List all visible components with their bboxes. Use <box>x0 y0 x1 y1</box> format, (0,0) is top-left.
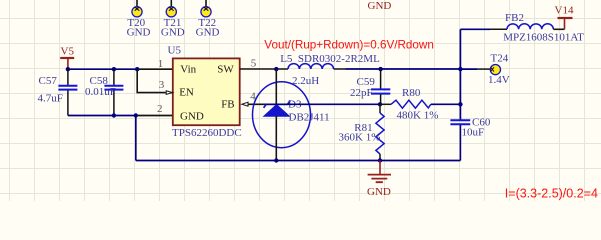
svg-text:Vin: Vin <box>180 64 196 76</box>
wire FB2 branch horizontal <box>460 28 490 30</box>
junction C59 top <box>378 67 382 71</box>
inductor L5 coil <box>288 64 334 69</box>
svg-text:GND: GND <box>180 111 204 123</box>
junction C58 bottom <box>112 113 116 117</box>
ferrite bead FB2 coil <box>507 24 553 29</box>
power symbol V5 stub <box>67 58 69 69</box>
test point T21 pin cross <box>169 7 174 11</box>
diode D3 anode lead <box>275 116 277 160</box>
capacitor C59 bottom lead <box>380 94 382 104</box>
power symbol V5 bar <box>60 57 74 59</box>
resistor R81 top lead <box>379 104 381 113</box>
diode D3 circle <box>253 82 311 148</box>
wire right vertical rail <box>459 29 461 120</box>
svg-text:R80: R80 <box>402 87 421 99</box>
diode D3 cathode bar (schottky) <box>264 100 291 108</box>
capacitor C58 plates <box>104 86 123 90</box>
test point T22 pin cross <box>204 7 209 11</box>
diode D3 triangle <box>264 105 290 117</box>
wire FB net <box>266 103 380 105</box>
svg-text:GND: GND <box>161 27 185 39</box>
wire EN branch vertical <box>137 69 166 92</box>
test point T21 <box>166 7 176 17</box>
pin 4 lead <box>248 103 267 105</box>
svg-text:T24: T24 <box>491 53 509 65</box>
junction C58 top <box>112 67 116 71</box>
resistor R80 zigzag <box>391 100 431 108</box>
svg-text:C58: C58 <box>90 75 109 87</box>
capacitor C57 bottom lead <box>67 91 69 116</box>
ferrite bead FB2 left lead <box>490 28 507 30</box>
svg-text:GND: GND <box>196 27 220 39</box>
svg-text:0.01uF: 0.01uF <box>85 86 116 98</box>
junction R81/GND symbol <box>378 158 382 162</box>
svg-text:GND: GND <box>368 0 392 12</box>
svg-text:360K 1%: 360K 1% <box>339 132 381 144</box>
junction SW/diode <box>274 67 278 71</box>
ferrite bead FB2 right lead <box>553 28 564 30</box>
capacitor C59 top lead <box>380 69 382 89</box>
svg-text:2: 2 <box>157 103 163 115</box>
svg-text:GND: GND <box>127 27 151 39</box>
junction Vout rail/right branch <box>458 67 462 71</box>
svg-text:FB2: FB2 <box>505 12 524 24</box>
wire Vin rail top-left <box>68 68 137 70</box>
capacitor C58 top lead <box>113 69 115 85</box>
wire L5 to right rail <box>346 68 461 70</box>
test point T22 <box>201 7 211 17</box>
svg-text:TPS62260DDC: TPS62260DDC <box>172 127 242 139</box>
test point T24 pin lead <box>477 68 490 70</box>
svg-text:10uF: 10uF <box>462 126 485 138</box>
ground symbol stub <box>379 161 381 175</box>
inductor L5 right lead <box>334 68 346 70</box>
svg-text:GND: GND <box>367 186 391 198</box>
svg-text:2.2uH: 2.2uH <box>292 75 319 87</box>
svg-text:22pF: 22pF <box>350 87 373 99</box>
capacitor C60 bottom lead <box>459 125 461 161</box>
resistor R81 zigzag <box>376 113 384 154</box>
test point T20 <box>132 7 142 17</box>
junction FB node <box>378 102 382 106</box>
svg-text:SW: SW <box>217 64 234 76</box>
test point T24 pin cross <box>491 67 494 71</box>
capacitor C59 plates <box>371 89 390 93</box>
svg-text:4.7uF: 4.7uF <box>38 93 63 105</box>
pin 1 lead <box>137 68 173 70</box>
junction EN branch <box>135 67 139 71</box>
capacitor C60 plates <box>450 120 470 124</box>
svg-text:V5: V5 <box>61 46 75 58</box>
junction R80/right branch <box>458 102 462 106</box>
wire GND rail bottom <box>136 160 461 162</box>
wire GND rail bottom-left <box>68 115 136 117</box>
test point T24 <box>490 65 500 75</box>
capacitor C58 bottom lead <box>113 91 115 116</box>
svg-text:L5 SDR0302-2R2ML: L5 SDR0302-2R2ML <box>280 53 380 65</box>
power symbol V14 bar <box>558 17 573 19</box>
resistor R80 right lead <box>431 103 461 105</box>
wire SW to L5 <box>240 68 288 70</box>
capacitor C57 top lead <box>67 69 69 85</box>
junction diode anode/GND rail <box>274 158 278 162</box>
svg-text:Vout/(Rup+Rdown)=0.6V/Rdown: Vout/(Rup+Rdown)=0.6V/Rdown <box>264 39 434 52</box>
capacitor C57 plates <box>58 86 77 90</box>
junction V5/C57 <box>66 67 70 71</box>
pin 2 lead <box>136 115 173 117</box>
ground symbol bars <box>368 175 391 183</box>
svg-text:DB2J411: DB2J411 <box>289 112 330 124</box>
resistor R80 left lead <box>380 103 391 105</box>
op-amp U5 body <box>173 58 240 125</box>
svg-text:480K 1%: 480K 1% <box>397 110 439 122</box>
resistor R81 bottom lead <box>379 154 381 161</box>
wire GND drop vertical <box>135 116 137 161</box>
svg-text:V14: V14 <box>555 5 574 17</box>
test point T22 pin stub <box>205 0 207 8</box>
svg-text:3: 3 <box>159 79 165 91</box>
svg-text:U5: U5 <box>168 45 182 57</box>
svg-text:1: 1 <box>158 58 164 70</box>
svg-text:1.4V: 1.4V <box>488 74 510 86</box>
test point T20 pin stub <box>136 0 138 8</box>
test point T21 pin stub <box>170 0 172 8</box>
svg-text:FB: FB <box>221 98 234 110</box>
wire T24 stub <box>460 68 477 70</box>
test point T20 pin cross <box>135 7 140 11</box>
junction GND drop <box>134 113 138 117</box>
svg-text:I=(3.3-2.5)/0.2=4: I=(3.3-2.5)/0.2=4 <box>505 186 598 200</box>
svg-text:5: 5 <box>251 58 257 70</box>
diode D3 cathode lead <box>275 69 277 104</box>
svg-text:MPZ1608S101AT: MPZ1608S101AT <box>503 31 584 43</box>
svg-text:C57: C57 <box>39 75 58 87</box>
svg-text:EN: EN <box>179 86 194 98</box>
power symbol V14 stub <box>564 18 566 29</box>
pin 4 input arrow <box>242 102 248 106</box>
pin 3 input arrow <box>166 91 173 95</box>
